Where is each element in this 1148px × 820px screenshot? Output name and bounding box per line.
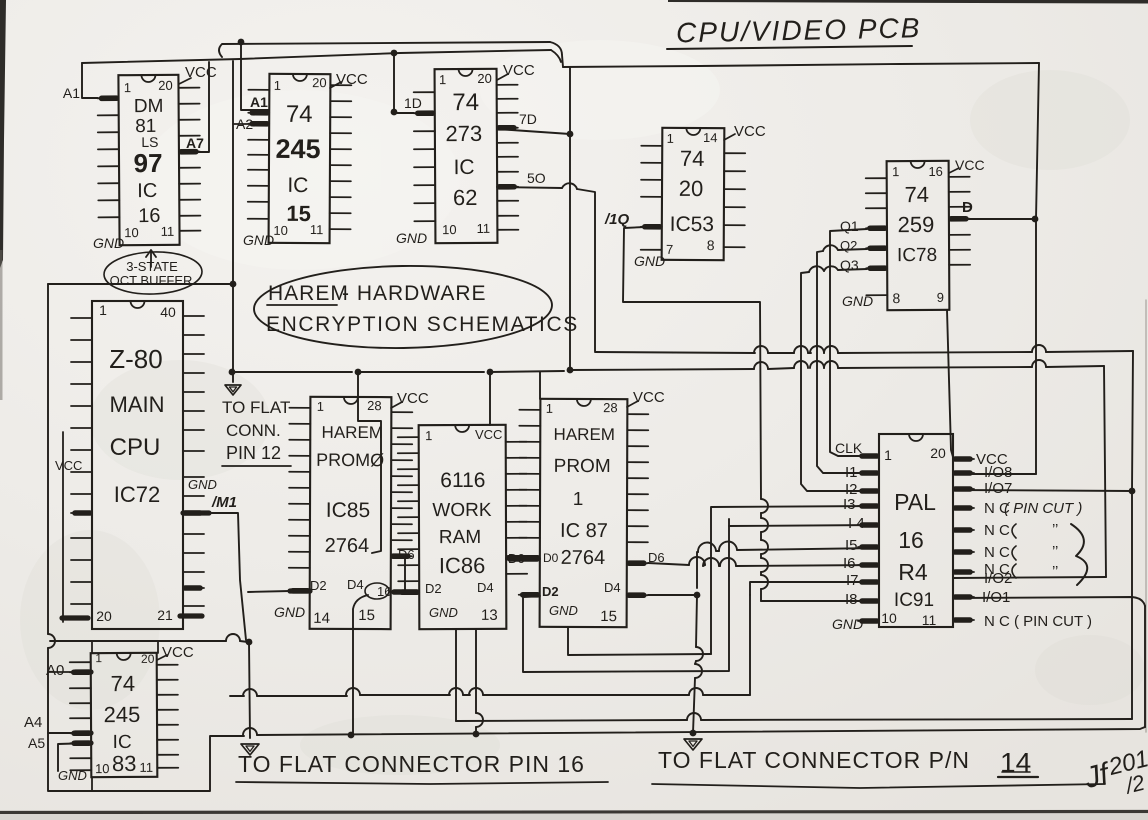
svg-text:VCC: VCC [336, 71, 368, 88]
svg-text:15: 15 [286, 201, 311, 226]
svg-text:14: 14 [703, 130, 718, 145]
svg-text:2764: 2764 [325, 535, 370, 557]
svg-text:GND: GND [93, 235, 124, 251]
svg-text:VCC: VCC [475, 427, 502, 442]
svg-text:I6: I6 [843, 555, 856, 572]
svg-text:13: 13 [481, 607, 498, 624]
svg-text:/M1: /M1 [211, 494, 237, 511]
IC53 gate 7420 [641, 128, 746, 261]
svg-text:IC: IC [287, 174, 308, 197]
wire IC83 bottom-left stub to L path [91, 777, 93, 791]
svg-text:IC85: IC85 [326, 499, 370, 522]
svg-text:74: 74 [111, 671, 136, 696]
title bubble HAREM-HARDWARE ENCRYPTION SCHEMATICS [253, 264, 552, 350]
wire V x=1104 down to I/O2 [1104, 366, 1106, 577]
wire I/O2 from PAL to vertical [953, 577, 1106, 578]
svg-text:IC: IC [137, 180, 157, 202]
wire V x=490 from bus into IC86 top [489, 372, 491, 425]
wire I/O7 from PAL to far right vertical [953, 490, 1132, 491]
svg-text:CONN.: CONN. [226, 421, 281, 440]
junction dot x233 y284 [230, 281, 237, 288]
svg-text:VCC: VCC [633, 389, 665, 406]
wire D2 IC85 to M1 vertical [290, 588, 310, 593]
signature Jf2013/12 [1080, 742, 1148, 808]
svg-text:259: 259 [898, 212, 935, 237]
svg-text:2764: 2764 [561, 547, 606, 569]
arrow to flat connector pin 16 [241, 744, 259, 755]
svg-text:IC: IC [113, 732, 132, 753]
svg-text:RAM: RAM [439, 527, 481, 548]
svg-text:I/O8: I/O8 [984, 464, 1012, 481]
IC15 buffer 74245 [248, 74, 352, 244]
svg-text:GND: GND [832, 616, 863, 632]
junction dot 7D [567, 131, 574, 138]
svg-text:PROMØ: PROMØ [316, 450, 384, 470]
junction dot I/O7 right [1129, 488, 1136, 495]
svg-text:GND: GND [396, 230, 427, 246]
wire A2 stub from vertical to IC15 [233, 123, 269, 125]
wire Q1 from IC78 down to CLK of PAL [830, 229, 867, 456]
svg-text:14: 14 [313, 610, 330, 627]
svg-text:VCC: VCC [734, 123, 766, 140]
junction dot D net [1032, 216, 1039, 223]
svg-text:1: 1 [317, 399, 324, 414]
svg-text:GND: GND [188, 477, 217, 492]
svg-text:7D: 7D [519, 111, 537, 127]
svg-text:11: 11 [477, 221, 491, 236]
wire I5 from PAL left down to bottom bus [737, 548, 879, 550]
svg-text:VCC: VCC [55, 458, 82, 473]
svg-text:10: 10 [124, 225, 139, 240]
svg-text:I5: I5 [845, 537, 858, 554]
wire y=284 from left bus to vertical x233 [48, 283, 233, 285]
svg-text:273: 273 [445, 121, 482, 146]
svg-text:21: 21 [157, 607, 173, 623]
wire /1Q from IC53 down and over to I8 vertical [623, 227, 761, 499]
svg-text:GND: GND [842, 293, 873, 309]
svg-text:CLK: CLK [835, 440, 863, 456]
svg-text:74: 74 [452, 89, 479, 116]
scan edge bottom strip [0, 812, 1148, 813]
svg-text:74: 74 [286, 101, 313, 128]
bus wire y=353 from x595 to right corner x1133 [595, 352, 755, 353]
svg-text:R4: R4 [898, 559, 928, 585]
svg-text:I/O7: I/O7 [984, 480, 1012, 497]
svg-text:PAL: PAL [894, 489, 936, 515]
wire I8 from vertical to PAL [761, 600, 879, 602]
svg-text:6116: 6116 [440, 469, 485, 492]
svg-text:D4: D4 [477, 580, 494, 595]
wire V x=1145 down to bottom bus end [1144, 606, 1146, 727]
svg-text:245: 245 [104, 702, 141, 727]
svg-text:11: 11 [139, 760, 153, 775]
svg-text:245: 245 [275, 134, 320, 164]
svg-text:IC86: IC86 [439, 553, 486, 578]
bottom long bus y=735 with left L from paper left [47, 284, 49, 634]
svg-text:HAREM: HAREM [322, 423, 383, 442]
IC85 HAREM PROM0 2764 [289, 397, 413, 629]
wire V x=358 into IC85 top and inner line [358, 372, 381, 553]
svg-text:GND: GND [634, 253, 665, 269]
wire 1D: dot on top wire down to IC62 1D pin [391, 50, 398, 57]
svg-text:1: 1 [546, 401, 553, 416]
IC62 latch 74273 [414, 69, 519, 244]
svg-text:N C: N C [984, 544, 1010, 561]
IC83 buffer 74245 [70, 651, 179, 778]
svg-text:IC91: IC91 [894, 590, 934, 611]
svg-text:I7: I7 [846, 572, 859, 589]
svg-text:IC 87: IC 87 [560, 520, 608, 542]
svg-text:D4: D4 [604, 580, 621, 595]
label A4 tick [75, 730, 91, 735]
svg-text:TO FLAT: TO FLAT [222, 398, 290, 417]
svg-text:I8: I8 [845, 591, 858, 608]
svg-text:1D: 1D [404, 95, 422, 111]
wire IC83 pin20 stub up to wire641 [157, 641, 159, 653]
svg-text:/1Q: /1Q [604, 211, 630, 228]
wire V x=82 to A1 of IC16 [82, 63, 98, 98]
svg-text:DM: DM [134, 96, 164, 117]
svg-text:I 4: I 4 [848, 515, 865, 532]
svg-text:VCC: VCC [397, 390, 429, 407]
wire IC86 leg x=476 from bottom to bus735 [475, 629, 477, 713]
wire 7D from IC62 to vertical [497, 129, 570, 134]
svg-text:97: 97 [133, 148, 162, 178]
wire V x=1039 from top wire down to I/O8 [1036, 63, 1039, 474]
svg-text:OCT BUFFER: OCT BUFFER [110, 273, 193, 288]
bus wire y=369 from x232 to right corner x1104 [232, 371, 352, 373]
svg-text:N C ( PIN CUT ): N C ( PIN CUT ) [984, 613, 1092, 630]
svg-text:TO FLAT CONNECTOR PIN 16: TO FLAT CONNECTOR PIN 16 [238, 751, 585, 777]
svg-text:83: 83 [112, 751, 137, 776]
svg-text:GND: GND [549, 603, 578, 618]
svg-text:GND: GND [243, 232, 274, 248]
wire D6 from IC87 to I6 of PAL [648, 563, 689, 565]
svg-text:62: 62 [453, 185, 478, 210]
wire V x=570 from top wire down to bus [569, 67, 571, 369]
svg-text:WORK: WORK [432, 500, 492, 521]
svg-text:TO FLAT CONNECTOR P/N: TO FLAT CONNECTOR P/N [658, 747, 970, 773]
svg-text:14: 14 [1000, 747, 1031, 778]
svg-text:Q1: Q1 [840, 218, 859, 234]
IC86 6116 WORK RAM [398, 425, 528, 629]
svg-text:11: 11 [922, 612, 937, 628]
wire IC86 leg x=456 from bottom to bus720 [455, 629, 457, 721]
svg-text:16: 16 [928, 164, 943, 179]
wire top A -- from IC16 A1 across top [82, 50, 551, 63]
svg-text:1: 1 [425, 428, 432, 443]
wire top bend at x=550 [550, 42, 563, 67]
IC78 addressable latch 74259 [866, 161, 971, 311]
svg-text:1: 1 [439, 72, 446, 87]
wire D4 from IC87 to I5 vertical [648, 594, 697, 596]
svg-text:PROM: PROM [554, 456, 611, 477]
svg-text:VCC: VCC [503, 62, 535, 79]
svg-text:IC72: IC72 [114, 482, 160, 507]
svg-text:VCC: VCC [955, 157, 985, 173]
svg-text:IC: IC [454, 156, 475, 179]
wire I3 from PAL left then down to IC87 bottom wire [711, 506, 879, 654]
svg-text:20: 20 [312, 75, 327, 90]
wire V x=1132 right side down to bottom bus [1132, 351, 1133, 719]
svg-text:- HARDWARE: - HARDWARE [342, 282, 487, 305]
svg-text:28: 28 [603, 400, 618, 415]
Z80 bottom pin 20 thick lead [62, 615, 88, 620]
svg-text:20: 20 [477, 71, 492, 86]
wire V x=540 from bus to IC87 pin1 [539, 372, 541, 399]
IC87 HAREM PROM1 2764 [519, 399, 649, 627]
Z80 main CPU IC72 [71, 301, 204, 629]
wire V x=233 long vertical to flat-conn-12 arrow [232, 61, 234, 382]
svg-text:20: 20 [141, 652, 155, 666]
svg-text:1: 1 [95, 651, 102, 665]
svg-text:VCC: VCC [162, 644, 194, 661]
svg-text:ENCRYPTION SCHEMATICS: ENCRYPTION SCHEMATICS [266, 313, 579, 336]
bus wire y=696 long lower [230, 695, 244, 697]
svg-text:A1: A1 [63, 85, 80, 101]
wire D4/16/D2 between IC85 and IC86 [391, 591, 419, 593]
svg-text:15: 15 [358, 607, 375, 624]
svg-text:20: 20 [96, 608, 112, 624]
wire hook from D4-D2 wire down to bus735 x=353 [353, 595, 368, 734]
wire A0 from left bus to IC83 [48, 671, 91, 673]
svg-text:D2: D2 [542, 584, 559, 599]
svg-text:20: 20 [679, 176, 704, 201]
wire I/O8 from vertical to PAL [953, 473, 1036, 475]
svg-text:10: 10 [881, 610, 897, 626]
arrow to flat connector pin 14 [684, 739, 702, 750]
scan edge right faint line [1145, 300, 1147, 732]
svg-text:9: 9 [937, 290, 944, 305]
junction dot x693 bus735 [690, 730, 697, 737]
scan edge left dark strip [0, 0, 6, 268]
svg-text:N C: N C [984, 522, 1010, 539]
svg-text:Z-80: Z-80 [109, 344, 162, 374]
svg-text:GND: GND [429, 605, 458, 620]
arrow to flat conn pin 12 [225, 385, 241, 395]
svg-text:16: 16 [138, 205, 160, 227]
svg-text:8: 8 [707, 237, 715, 253]
Z80 bottom pin 21 thick lead [180, 613, 202, 618]
wire top B upper [219, 42, 550, 57]
svg-text:I3: I3 [843, 496, 856, 513]
svg-text:IC53: IC53 [670, 213, 714, 236]
svg-text:10: 10 [273, 223, 288, 238]
wire V x=209 from A7 of IC16 up [179, 62, 209, 152]
PAL16R4 IC91 [858, 434, 974, 628]
svg-text:1: 1 [99, 302, 107, 318]
svg-text:3-STATE: 3-STATE [126, 259, 178, 274]
junction dot x351 bus735 [348, 732, 355, 739]
svg-text:11: 11 [161, 224, 175, 239]
wire A4 from IC83 left loop [48, 732, 91, 734]
svg-text:IC78: IC78 [897, 245, 937, 266]
svg-text:74: 74 [904, 182, 929, 207]
svg-text:’’: ’’ [1052, 543, 1058, 560]
svg-text:( PIN CUT ): ( PIN CUT ) [1004, 500, 1082, 517]
wire A5 from IC83 short leg [58, 743, 91, 771]
wire D from IC78 to right vertical [949, 218, 1035, 220]
wire I/O1 from PAL to far right then down [953, 597, 1145, 606]
IC16 octal buffer DM81LS97 [97, 75, 200, 246]
svg-text:GND: GND [58, 768, 87, 783]
svg-text:D4: D4 [347, 577, 364, 592]
svg-text:HAREM: HAREM [268, 282, 349, 305]
svg-text:16: 16 [898, 527, 924, 553]
wire Q3 from IC78 down to I2 of PAL [838, 269, 867, 270]
svg-text:74: 74 [680, 146, 705, 171]
svg-text:11: 11 [310, 222, 324, 237]
svg-text:1: 1 [667, 131, 674, 146]
svg-text:’’: ’’ [1052, 521, 1058, 538]
svg-text:A4: A4 [24, 714, 42, 731]
svg-text:A7: A7 [186, 135, 204, 151]
svg-text:MAIN: MAIN [110, 392, 165, 417]
big brace pin cut PAL [1071, 524, 1087, 585]
bus wire y=720 from IC86 leg to right corner [456, 720, 687, 721]
wire /M1 from Z80 down to flat conn pin16 arrow [183, 510, 209, 515]
svg-text:1: 1 [573, 489, 584, 510]
junction dot D4 net [694, 592, 701, 599]
svg-text:D0: D0 [543, 551, 559, 565]
svg-text:15: 15 [600, 608, 617, 625]
svg-text:7: 7 [666, 242, 673, 257]
svg-text:A5: A5 [28, 735, 45, 751]
wire D6 IC85 short hook down [404, 557, 406, 590]
wire D6-D0 between IC86 and IC87 [506, 558, 540, 560]
svg-text:1: 1 [274, 78, 281, 93]
wire Q2 from IC78 down to I1 of PAL [838, 249, 867, 250]
3-STATE OCT BUFFER note with arrow [103, 250, 202, 296]
svg-text:GND: GND [274, 604, 305, 620]
wire I4 from PAL left down to IC87 D2 [729, 519, 879, 526]
VCC rail left of Z80 [62, 432, 64, 622]
svg-text:A1: A1 [250, 94, 268, 110]
svg-text:40: 40 [160, 304, 176, 320]
svg-text:1: 1 [884, 447, 892, 463]
wire V x=241 from top B to A1 of IC15 [241, 42, 269, 110]
title CPU/VIDEO PCB [676, 12, 922, 48]
scan edge top dark strip [668, 0, 1148, 4]
svg-text:8: 8 [892, 290, 900, 306]
svg-text:10: 10 [95, 761, 110, 776]
svg-text:HAREM: HAREM [554, 425, 615, 444]
wire y=641 from left bus to M1 vertical dot [50, 640, 226, 642]
svg-text:28: 28 [367, 398, 382, 413]
svg-text:5O: 5O [527, 170, 546, 186]
svg-text:10: 10 [442, 222, 457, 237]
svg-text:CPU: CPU [110, 434, 161, 461]
wire y=654 from IC87 bottom to I3 vertical [568, 627, 711, 655]
svg-text:1: 1 [892, 164, 899, 179]
wire IC83 pin1 stub up to wire641 [91, 641, 93, 653]
wire I7 from PAL left down to bus696 [750, 582, 879, 595]
wire IC78 pin9 down to PAL VCC [947, 310, 953, 457]
junction dot x476 bus735 [473, 731, 480, 738]
svg-text:PIN 12: PIN 12 [226, 443, 281, 463]
svg-text:20: 20 [930, 445, 946, 461]
svg-text:20: 20 [158, 78, 173, 93]
svg-text:D: D [962, 199, 973, 216]
junction dot M1 net y641 [246, 639, 253, 646]
wire 5O from IC62 hopping x570 then down x595 [497, 187, 562, 188]
junction dot x233 y372 [229, 369, 236, 376]
svg-text:CPU/VIDEO PCB: CPU/VIDEO PCB [676, 12, 922, 48]
wire top long to right edge [563, 63, 1039, 67]
svg-text:1: 1 [124, 80, 131, 95]
svg-text:D2: D2 [425, 581, 442, 596]
